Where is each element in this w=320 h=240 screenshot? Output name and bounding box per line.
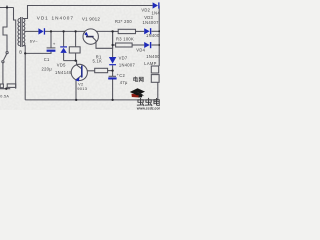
svg-text:5.1K: 5.1K <box>93 59 103 64</box>
svg-text:6V~: 6V~ <box>30 39 38 44</box>
svg-text:R3 100K: R3 100K <box>116 37 134 42</box>
svg-text:220μ: 220μ <box>42 66 53 71</box>
svg-text:LAMP: LAMP <box>144 61 156 66</box>
svg-text:V1 9012: V1 9012 <box>82 17 100 22</box>
svg-text:1N4148: 1N4148 <box>55 70 72 75</box>
svg-text:R2* 200: R2* 200 <box>115 19 132 24</box>
svg-text:www.ccdz.com: www.ccdz.com <box>136 107 160 110</box>
svg-text:C2: C2 <box>119 73 125 78</box>
svg-text:VD2: VD2 <box>141 7 150 12</box>
svg-text:VD1: VD1 <box>37 16 49 21</box>
svg-text:VD7: VD7 <box>119 56 128 61</box>
svg-text:虫虫电: 虫虫电 <box>137 97 160 107</box>
svg-text:1N4007: 1N4007 <box>52 16 74 21</box>
svg-text:VD4: VD4 <box>136 47 145 52</box>
svg-text:9013: 9013 <box>77 86 88 91</box>
svg-text:+: + <box>117 72 120 77</box>
svg-text:1N4007: 1N4007 <box>146 54 160 59</box>
svg-text:1N4007: 1N4007 <box>119 62 136 67</box>
svg-text:+: + <box>53 41 56 46</box>
svg-text:47μ: 47μ <box>120 80 128 85</box>
svg-text:1N4007: 1N4007 <box>146 33 160 38</box>
svg-text:0.5A: 0.5A <box>0 95 9 99</box>
svg-text:C1: C1 <box>44 57 50 62</box>
svg-text:1N4007: 1N4007 <box>143 20 160 25</box>
svg-text:电网: 电网 <box>133 75 145 83</box>
svg-text:B: B <box>19 50 22 55</box>
svg-text:VD5: VD5 <box>57 62 66 67</box>
